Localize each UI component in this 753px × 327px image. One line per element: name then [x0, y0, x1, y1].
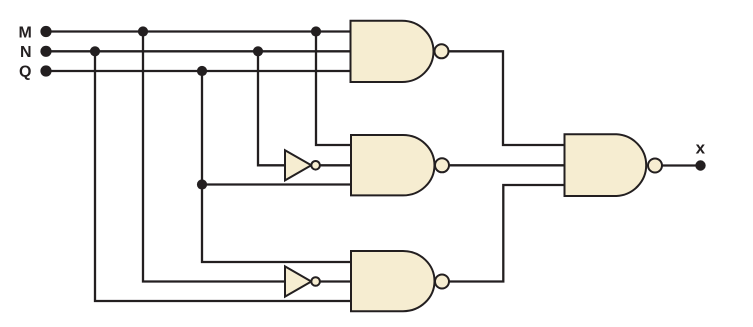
svg-text:Q: Q [19, 64, 31, 81]
svg-text:M: M [19, 25, 32, 42]
svg-text:N: N [20, 44, 32, 61]
svg-text:x: x [696, 138, 706, 157]
